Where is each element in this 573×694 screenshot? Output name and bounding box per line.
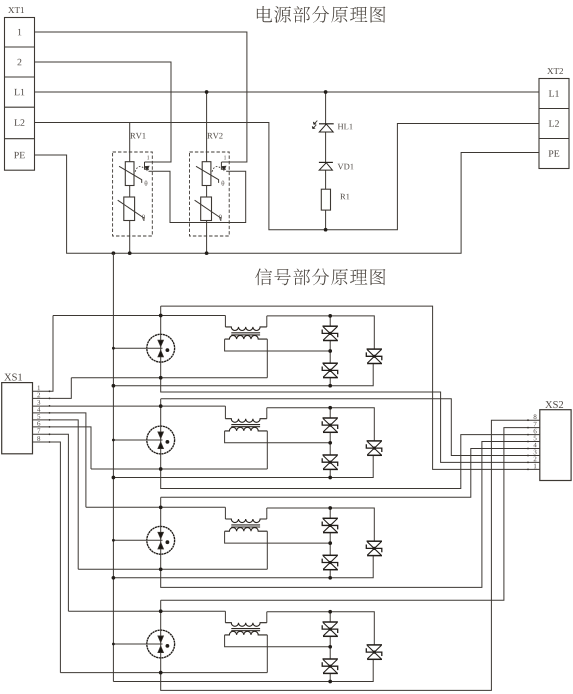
wire XS1 return feed channel 2	[33, 427, 92, 469]
junction TVS top ch2	[328, 406, 332, 410]
RV1 thermal contact	[145, 162, 150, 169]
wire TVS chain bottom ch3	[329, 570, 331, 578]
junction PE drop/GDT1	[112, 347, 115, 350]
T1 primary right riser	[266, 316, 268, 327]
junction return/GDT2 bottom	[159, 467, 163, 471]
RV1 varistor 1 (with thermal disconnect)	[125, 162, 134, 186]
wire return link channel 3 to XS2 pin 5	[161, 442, 540, 588]
wire PE to GDT4 electrode	[113, 643, 162, 645]
wire PE to GDT1 electrode	[113, 347, 162, 349]
connector XS1	[4, 374, 11, 381]
TVS diode pair right ch4	[367, 644, 382, 646]
junction L1/HL1	[324, 90, 328, 94]
wire PE to GDT3 electrode	[113, 539, 162, 541]
wire T1 primary out to TVS column	[267, 316, 375, 349]
terminal block XT1	[8, 7, 14, 13]
RV2 varistor 1 (with thermal disconnect)	[202, 162, 211, 186]
wire PE branch channel 1 to TVS bottoms	[113, 364, 373, 386]
TVS diode pair lower ch3	[323, 554, 338, 556]
wire XT1:2 to RV1 thermal contact	[35, 62, 172, 162]
junction TVS top ch1	[328, 314, 332, 318]
wire return link channel 1 to XS2 pin 2	[161, 378, 540, 463]
resistor R1	[321, 189, 330, 210]
wire XS1 return feed channel 3	[33, 420, 79, 569]
wire TVS chain bottom ch2	[329, 469, 331, 477]
junction PE bus/RV1	[128, 251, 132, 255]
junction TVS mid ch4	[328, 645, 332, 649]
RV2 varistor 2	[201, 197, 212, 221]
T4 primary right riser	[266, 612, 268, 623]
gas discharge tube channel 3	[147, 526, 175, 554]
junction TVS bottom ch4	[328, 680, 332, 684]
TVS diode pair lower ch1	[323, 362, 338, 364]
T2 primary winding	[225, 419, 266, 423]
T4 secondary right riser	[266, 635, 268, 673]
T3 primary right riser	[266, 508, 268, 519]
wire T4 primary out to TVS column	[267, 612, 375, 645]
diode VD1	[319, 161, 333, 163]
title: 电源部分原理图 (power section schematic)	[257, 6, 272, 22]
wire XS1 feed to channel 2 primary	[32, 405, 34, 407]
wire through GDT3	[160, 497, 162, 569]
T1 core	[231, 332, 260, 334]
junction TVS bottom ch3	[328, 576, 332, 580]
wire TVS chain mid ch3	[329, 533, 331, 556]
varistor module RV1	[130, 133, 135, 139]
T2 secondary left to TVS mid	[225, 431, 331, 443]
junction TVS mid ch3	[328, 541, 332, 545]
RV2 thermal contact	[221, 162, 226, 169]
junction TVS mid ch1	[328, 349, 332, 353]
TVS diode pair right ch1	[367, 348, 382, 350]
wire return link channel 4 to XS2 pin 8	[161, 420, 540, 690]
wire GDT3 top to XS2 pin 4	[161, 449, 540, 498]
junction PE drop/branch ch1	[112, 384, 116, 388]
TVS diode pair lower ch2	[323, 454, 338, 456]
RV1 varistor 2	[124, 197, 135, 221]
wire PE branch channel 2 to TVS bottoms	[113, 455, 373, 477]
junction TVS top ch3	[328, 506, 332, 510]
junction R1 bottom/L2 link	[324, 228, 328, 232]
T4 primary winding	[225, 623, 266, 627]
wire GDT1 top to XS2 pin 1	[161, 306, 540, 469]
junction return/GDT3 bottom	[159, 567, 163, 571]
wire RV2 column	[206, 92, 208, 253]
wire L1 bus XT1 to XT2	[35, 91, 540, 93]
wire TVS chain top ch4	[329, 612, 331, 622]
junction feed/GDT2 top	[159, 404, 163, 408]
junction L1/RV2	[205, 90, 209, 94]
wire XS1 return feed channel 4	[33, 442, 61, 673]
T3 secondary right riser	[266, 531, 268, 569]
signal PE drop from power PE bus	[112, 253, 114, 681]
TVS diode pair upper ch3	[323, 517, 338, 519]
wire TVS chain mid ch4	[329, 636, 331, 659]
wire through GDT2	[160, 399, 162, 469]
T1 secondary winding	[225, 336, 268, 340]
T3 primary winding	[225, 519, 266, 523]
junction TVS mid ch2	[328, 441, 332, 445]
junction feed/GDT4 top	[159, 609, 163, 613]
wire through GDT4	[160, 600, 162, 672]
junction TVS bottom ch1	[328, 384, 332, 388]
T3 secondary left to TVS mid	[225, 531, 331, 543]
RV2 dashed enclosure	[190, 152, 230, 236]
junction PE drop/GDT3	[112, 539, 115, 542]
wire GDT2 top to XS2 pin 3	[161, 399, 540, 456]
wire L2 XT1 via R1 bottom to XT2	[35, 123, 540, 230]
wire TVS chain mid ch1	[329, 341, 331, 364]
RV1 dashed enclosure	[113, 152, 153, 236]
TVS diode pair upper ch2	[323, 417, 338, 419]
T3 core	[231, 524, 260, 526]
wire TVS chain top ch3	[329, 508, 331, 518]
wire through GDT1	[160, 306, 162, 378]
junction PE drop/branch ch3	[112, 576, 116, 580]
T2 primary right riser	[266, 408, 268, 419]
wire T3 primary out to TVS column	[267, 508, 375, 541]
gas discharge tube channel 2	[147, 426, 175, 454]
T2 core	[231, 424, 260, 426]
TVS diode pair upper ch1	[323, 325, 338, 327]
title: 信号部分原理图 (signal section schematic)	[255, 268, 272, 285]
wire XS1 feed to channel 3 primary	[33, 413, 86, 507]
T1 secondary left to TVS mid	[225, 339, 331, 351]
junction PE drop/branch ch2	[112, 476, 116, 480]
junction feed/GDT1 top	[159, 314, 163, 318]
wire PE bus XT1 to XT2	[35, 153, 540, 254]
T4 secondary winding	[225, 631, 268, 635]
gas discharge tube channel 1	[147, 334, 175, 362]
wire T2 primary out to TVS column	[267, 408, 375, 441]
junction PE drop/GDT2	[112, 439, 115, 442]
wire RV1 column	[129, 123, 131, 254]
wire TVS chain bottom ch1	[329, 378, 331, 386]
connector XS2	[545, 401, 552, 408]
varistor module RV2	[207, 133, 212, 139]
wire PE branch channel 4 to TVS bottoms	[113, 659, 373, 681]
T4 core	[231, 628, 260, 630]
LED HL1	[319, 123, 334, 125]
gas discharge tube channel 4	[147, 630, 175, 658]
T2 secondary right riser	[266, 431, 268, 469]
TVS diode pair right ch3	[367, 540, 382, 542]
wire TVS chain mid ch2	[329, 432, 331, 455]
wire XS1 feed to channel 1 primary	[33, 316, 54, 392]
terminal block XT2	[547, 68, 553, 74]
T4 secondary left to TVS mid	[225, 635, 331, 647]
T1 primary winding	[225, 327, 266, 331]
wire TVS chain bottom ch4	[329, 673, 331, 681]
junction PE bus/RV2	[205, 251, 209, 255]
junction PE bus/signal PE drop	[112, 251, 116, 255]
T2 secondary winding	[225, 427, 268, 431]
T1 secondary right riser	[266, 339, 268, 378]
wire PE to GDT2 electrode	[113, 439, 162, 441]
wire TVS chain top ch2	[329, 408, 331, 418]
junction TVS bottom ch2	[328, 476, 332, 480]
junction return/GDT4 bottom	[159, 671, 163, 675]
junction feed/GDT3 top	[159, 505, 163, 509]
TVS diode pair lower ch4	[323, 658, 338, 660]
TVS diode pair right ch2	[367, 440, 382, 442]
wire TVS chain top ch1	[329, 316, 331, 326]
junction TVS top ch4	[328, 610, 332, 614]
indicator chain HL1/VD1/R1 column	[325, 92, 327, 230]
TVS diode pair upper ch4	[323, 621, 338, 623]
wire RV1 contact out to RV2 contact out (series loop)	[149, 171, 246, 222]
wire XT1:1 to RV2 thermal contact	[35, 32, 247, 162]
wire GDT4 top to XS2 pin 7	[161, 428, 540, 601]
wire XS1 feed to channel 4 primary	[33, 434, 69, 611]
wire PE branch channel 3 to TVS bottoms	[113, 556, 373, 578]
junction return/GDT1 bottom	[159, 376, 163, 380]
T3 secondary winding	[225, 528, 268, 532]
wire XS1 return feed channel 1	[33, 378, 72, 399]
wire return link channel 2 to XS2 pin 6	[161, 435, 540, 489]
junction PE drop/GDT4	[112, 643, 115, 646]
